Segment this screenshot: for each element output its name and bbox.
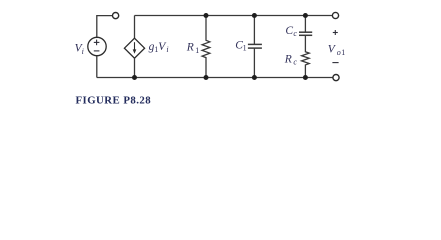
- svg-text:C: C: [285, 25, 293, 37]
- resistor R1: [202, 16, 210, 78]
- wire: Vi top lead up to corner and right to input terminal: [97, 16, 112, 38]
- terminal output top open circle: [332, 12, 338, 18]
- junction dot bottom of R1: [204, 75, 209, 80]
- minus sign output polarity: [332, 62, 338, 64]
- svg-text:o: o: [337, 48, 341, 57]
- junction dot bottom of diamond branch: [132, 75, 137, 80]
- junction dot top of R1: [204, 13, 209, 18]
- terminal output bottom open circle: [333, 75, 339, 81]
- svg-text:R: R: [186, 42, 194, 54]
- voltage source Vi circle: [88, 37, 106, 55]
- svg-text:FIGURE P8.28: FIGURE P8.28: [76, 95, 152, 107]
- svg-text:1: 1: [195, 46, 199, 55]
- arrow inside dependent source: [133, 42, 137, 54]
- svg-text:c: c: [293, 58, 297, 67]
- label Vi: [75, 43, 84, 56]
- wire: diamond branch top: [134, 16, 136, 39]
- svg-text:1: 1: [341, 48, 345, 57]
- label Vo1: [328, 44, 346, 57]
- junction dot top of C1: [252, 13, 257, 18]
- svg-text:V: V: [328, 44, 337, 56]
- terminal input top open circle: [113, 13, 119, 19]
- plus sign output polarity: [333, 30, 338, 35]
- capacitor C1: [248, 16, 262, 78]
- figure caption FIGURE P8.28: [76, 95, 152, 107]
- wire: bottom rail: [97, 77, 333, 79]
- junction dot top of Cc branch: [303, 13, 308, 18]
- svg-text:c: c: [293, 29, 297, 38]
- plus sign inside Vi: [94, 40, 100, 46]
- label g1Vi: [149, 41, 169, 54]
- wire: Vi bottom lead: [96, 56, 98, 78]
- junction dot bottom of C1: [252, 75, 257, 80]
- minus sign inside Vi: [94, 50, 100, 52]
- dependent source g1Vi diamond: [124, 38, 144, 58]
- label R1: [186, 42, 199, 55]
- wire: diamond branch bottom: [134, 58, 136, 77]
- label Cc: [285, 25, 297, 38]
- svg-text:i: i: [82, 47, 84, 56]
- capacitor Cc: [299, 16, 312, 36]
- svg-text:1: 1: [243, 44, 247, 53]
- svg-text:R: R: [284, 53, 292, 65]
- junction dot bottom of Rc branch: [303, 75, 308, 80]
- label C1: [235, 39, 246, 52]
- svg-text:i: i: [166, 45, 168, 54]
- label Rc: [284, 53, 298, 66]
- wire: top rail: [135, 15, 333, 17]
- resistor Rc: [302, 35, 310, 77]
